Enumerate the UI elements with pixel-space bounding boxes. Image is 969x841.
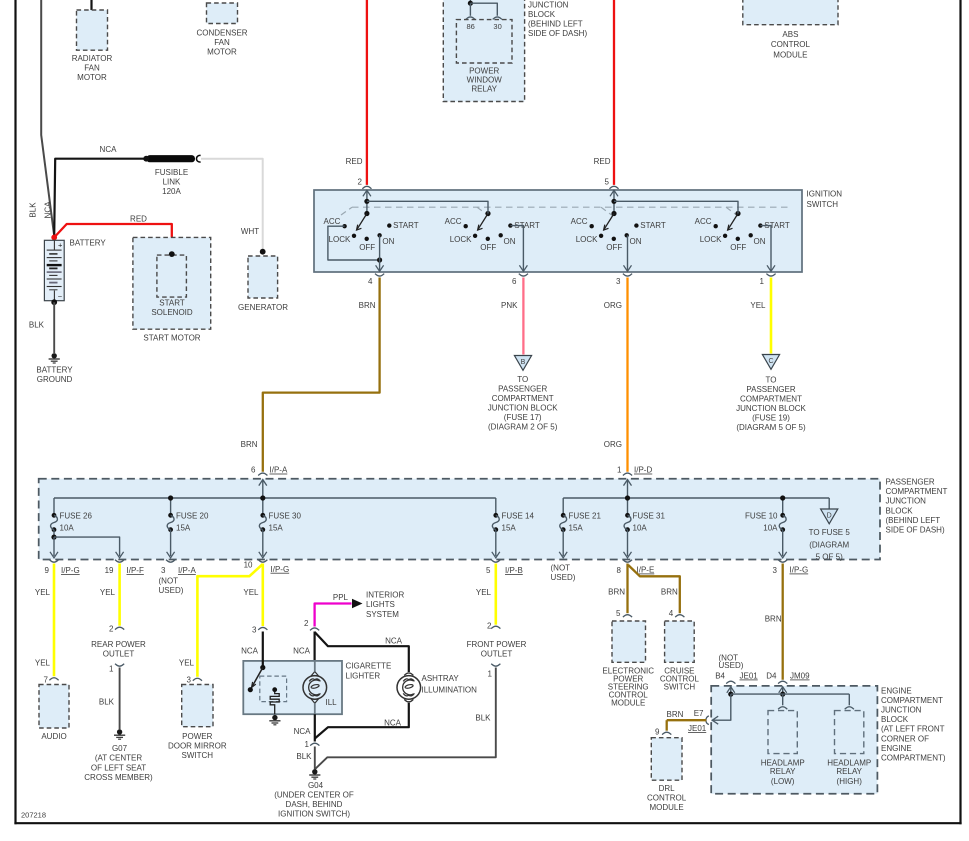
svg-text:START MOTOR: START MOTOR [143, 333, 200, 342]
svg-text:JE01: JE01 [688, 724, 707, 733]
svg-text:BATTERY: BATTERY [36, 365, 73, 374]
svg-text:(DIAGRAM 2 OF 5): (DIAGRAM 2 OF 5) [488, 422, 558, 431]
svg-text:JUNCTION BLOCK: JUNCTION BLOCK [488, 403, 558, 412]
svg-text:NCA: NCA [241, 647, 259, 656]
svg-text:3: 3 [252, 626, 257, 635]
svg-text:FRONT POWER: FRONT POWER [467, 640, 527, 649]
svg-text:FUSE 20: FUSE 20 [176, 512, 209, 521]
svg-text:1: 1 [305, 740, 310, 749]
svg-text:(LOW): (LOW) [771, 777, 795, 786]
svg-text:JUNCTION: JUNCTION [886, 497, 927, 506]
svg-text:(NOT: (NOT [159, 577, 179, 586]
svg-text:15A: 15A [176, 524, 191, 533]
svg-text:RELAY: RELAY [471, 85, 497, 94]
svg-text:DRL: DRL [659, 784, 676, 793]
svg-text:2: 2 [109, 625, 114, 634]
svg-text:6: 6 [251, 466, 256, 475]
svg-text:10A: 10A [763, 524, 778, 533]
svg-text:LIGHTER: LIGHTER [346, 671, 381, 680]
svg-text:FUSE 14: FUSE 14 [502, 512, 535, 521]
svg-text:BRN: BRN [661, 588, 678, 597]
svg-text:D: D [827, 512, 832, 519]
svg-text:I/P-A: I/P-A [270, 466, 288, 475]
svg-text:1: 1 [760, 277, 765, 286]
svg-text:BLK: BLK [475, 713, 491, 722]
svg-text:RED: RED [594, 157, 611, 166]
svg-text:GENERATOR: GENERATOR [238, 303, 288, 312]
svg-text:10: 10 [244, 561, 253, 570]
svg-text:(DIAGRAM: (DIAGRAM [809, 541, 849, 550]
svg-text:MODULE: MODULE [649, 803, 683, 812]
svg-text:NCA: NCA [384, 718, 402, 727]
svg-text:NCA: NCA [293, 647, 311, 656]
svg-text:8: 8 [617, 566, 622, 575]
svg-text:REAR POWER: REAR POWER [91, 640, 146, 649]
svg-text:FUSE 30: FUSE 30 [269, 512, 302, 521]
svg-text:START: START [159, 298, 185, 307]
svg-text:JM09: JM09 [790, 672, 810, 681]
svg-text:B4: B4 [715, 672, 725, 681]
svg-text:ACC: ACC [695, 217, 712, 226]
svg-text:FAN: FAN [214, 38, 230, 47]
svg-text:RADIATOR: RADIATOR [72, 54, 113, 63]
svg-text:SIDE OF DASH): SIDE OF DASH) [886, 526, 945, 535]
svg-text:10A: 10A [633, 524, 648, 533]
svg-text:TO: TO [517, 375, 528, 384]
svg-text:ENGINE: ENGINE [881, 744, 912, 753]
svg-text:FUSE 21: FUSE 21 [569, 512, 602, 521]
svg-text:6: 6 [512, 277, 517, 286]
svg-text:19: 19 [105, 566, 114, 575]
svg-text:INTERIOR: INTERIOR [366, 591, 404, 600]
svg-text:JE01: JE01 [740, 672, 759, 681]
svg-text:TO FUSE 5: TO FUSE 5 [809, 528, 851, 537]
svg-text:COMPARTMENT: COMPARTMENT [740, 395, 802, 404]
svg-text:LOCK: LOCK [329, 235, 351, 244]
svg-text:BLOCK: BLOCK [528, 10, 556, 19]
svg-text:B: B [521, 359, 526, 366]
svg-text:I/P-G: I/P-G [790, 566, 809, 575]
svg-text:9: 9 [655, 728, 660, 737]
svg-text:BLK: BLK [296, 752, 312, 761]
svg-text:FAN: FAN [84, 64, 100, 73]
svg-text:30: 30 [493, 22, 501, 31]
svg-text:PASSENGER: PASSENGER [746, 385, 795, 394]
svg-text:POWER: POWER [182, 732, 212, 741]
svg-text:−: − [58, 292, 63, 301]
svg-text:G04: G04 [308, 781, 324, 790]
svg-text:NCA: NCA [44, 201, 53, 219]
svg-text:3: 3 [187, 676, 192, 685]
svg-text:PASSENGER: PASSENGER [886, 478, 935, 487]
svg-text:SWITCH: SWITCH [807, 200, 839, 209]
svg-text:ILL: ILL [326, 698, 338, 707]
svg-text:GROUND: GROUND [37, 375, 73, 384]
svg-text:LINK: LINK [163, 178, 181, 187]
svg-text:BRN: BRN [359, 301, 376, 310]
svg-text:POWER: POWER [469, 67, 499, 76]
svg-text:ILLUMINATION: ILLUMINATION [422, 685, 478, 694]
svg-text:2: 2 [487, 622, 492, 631]
svg-text:COMPARTMENT: COMPARTMENT [492, 394, 554, 403]
svg-text:BLK: BLK [29, 321, 45, 330]
svg-text:BATTERY: BATTERY [70, 239, 107, 248]
svg-text:BRN: BRN [765, 614, 782, 623]
svg-text:BLK: BLK [99, 698, 115, 707]
svg-text:SOLENOID: SOLENOID [151, 308, 193, 317]
svg-text:YEL: YEL [100, 588, 116, 597]
svg-text:WHT: WHT [241, 227, 259, 236]
svg-text:COMPARTMENT: COMPARTMENT [881, 696, 943, 705]
svg-text:OF LEFT SEAT: OF LEFT SEAT [91, 763, 146, 772]
svg-text:USED): USED) [719, 661, 744, 670]
svg-text:(HIGH): (HIGH) [837, 777, 863, 786]
svg-text:START: START [393, 221, 419, 230]
svg-text:LOCK: LOCK [700, 235, 722, 244]
svg-text:I/P-G: I/P-G [61, 566, 80, 575]
svg-text:PNK: PNK [501, 301, 518, 310]
svg-text:SIDE OF DASH): SIDE OF DASH) [528, 29, 587, 38]
svg-text:DOOR MIRROR: DOOR MIRROR [168, 741, 227, 750]
svg-text:I/P-B: I/P-B [505, 566, 523, 575]
svg-text:15A: 15A [269, 524, 284, 533]
svg-text:COMPARTMENT): COMPARTMENT) [881, 754, 946, 763]
svg-text:AUDIO: AUDIO [41, 732, 66, 741]
svg-text:CONDENSER: CONDENSER [196, 28, 247, 37]
svg-text:(FUSE 19): (FUSE 19) [752, 414, 790, 423]
svg-text:BLOCK: BLOCK [881, 715, 909, 724]
svg-text:C: C [768, 358, 773, 365]
svg-text:YEL: YEL [476, 588, 492, 597]
svg-text:YEL: YEL [243, 588, 259, 597]
svg-text:(UNDER CENTER OF: (UNDER CENTER OF [274, 790, 354, 799]
svg-text:ON: ON [382, 237, 394, 246]
svg-text:5: 5 [616, 609, 621, 618]
svg-text:CIGARETTE: CIGARETTE [346, 661, 392, 670]
svg-text:(NOT: (NOT [551, 564, 571, 573]
svg-text:CONTROL: CONTROL [771, 40, 811, 49]
svg-text:YEL: YEL [179, 659, 195, 668]
svg-text:YEL: YEL [750, 301, 766, 310]
svg-text:SWITCH: SWITCH [182, 751, 214, 760]
svg-text:MOTOR: MOTOR [77, 73, 107, 82]
svg-text:RED: RED [130, 215, 147, 224]
svg-text:CROSS MEMBER): CROSS MEMBER) [84, 773, 153, 782]
svg-text:OFF: OFF [606, 243, 622, 252]
svg-text:D4: D4 [766, 672, 777, 681]
svg-text:207218: 207218 [21, 811, 46, 820]
svg-text:OFF: OFF [730, 243, 746, 252]
svg-text:9: 9 [45, 566, 50, 575]
svg-text:ORG: ORG [604, 440, 622, 449]
svg-text:I/P-G: I/P-G [271, 565, 290, 574]
svg-text:I/P-E: I/P-E [637, 566, 655, 575]
svg-text:USED): USED) [551, 573, 576, 582]
svg-text:NCA: NCA [294, 727, 312, 736]
svg-text:HEADLAMP: HEADLAMP [761, 758, 805, 767]
svg-text:RELAY: RELAY [770, 767, 796, 776]
svg-text:ENGINE: ENGINE [881, 686, 912, 695]
svg-text:OFF: OFF [359, 243, 375, 252]
svg-text:OFF: OFF [480, 243, 496, 252]
svg-text:MOTOR: MOTOR [207, 47, 237, 56]
svg-text:3: 3 [161, 566, 166, 575]
svg-text:ASHTRAY: ASHTRAY [422, 674, 460, 683]
svg-text:MODULE: MODULE [611, 699, 645, 708]
svg-text:4: 4 [669, 609, 674, 618]
svg-text:START: START [640, 221, 666, 230]
svg-text:NCA: NCA [385, 636, 403, 645]
svg-text:I/P-D: I/P-D [634, 466, 652, 475]
svg-text:BRN: BRN [667, 710, 684, 719]
svg-text:OUTLET: OUTLET [103, 650, 135, 659]
svg-text:E7: E7 [694, 709, 704, 718]
svg-text:CORNER OF: CORNER OF [881, 734, 929, 743]
svg-text:COMPARTMENT: COMPARTMENT [886, 487, 948, 496]
svg-text:BRN: BRN [241, 440, 258, 449]
svg-text:4: 4 [368, 277, 373, 286]
svg-text:LOCK: LOCK [450, 235, 472, 244]
svg-text:FUSE 31: FUSE 31 [633, 512, 666, 521]
svg-text:5: 5 [605, 178, 610, 187]
svg-text:IGNITION SWITCH): IGNITION SWITCH) [278, 810, 350, 819]
svg-text:ON: ON [754, 237, 766, 246]
svg-text:1: 1 [488, 670, 493, 679]
svg-text:(AT LEFT FRONT: (AT LEFT FRONT [881, 725, 945, 734]
svg-text:BLOCK: BLOCK [886, 506, 914, 515]
svg-text:MODULE: MODULE [773, 50, 807, 59]
svg-text:10A: 10A [60, 524, 75, 533]
svg-text:FUSE 26: FUSE 26 [60, 512, 93, 521]
svg-text:I/P-F: I/P-F [127, 566, 144, 575]
svg-text:(FUSE 17): (FUSE 17) [504, 413, 542, 422]
svg-text:OUTLET: OUTLET [481, 650, 513, 659]
svg-text:BLK: BLK [29, 202, 38, 218]
svg-text:IGNITION: IGNITION [807, 190, 843, 199]
svg-text:(BEHIND LEFT: (BEHIND LEFT [886, 516, 941, 525]
svg-text:5 OF 5): 5 OF 5) [816, 553, 843, 562]
svg-text:+: + [58, 241, 63, 250]
svg-text:YEL: YEL [35, 658, 51, 667]
svg-text:LOCK: LOCK [576, 235, 598, 244]
svg-text:15A: 15A [569, 524, 584, 533]
svg-text:PPL: PPL [333, 593, 349, 602]
svg-text:(BEHIND LEFT: (BEHIND LEFT [528, 19, 583, 28]
svg-text:7: 7 [44, 676, 49, 685]
svg-text:2: 2 [358, 178, 363, 187]
svg-text:86: 86 [467, 22, 475, 31]
svg-text:FUSIBLE: FUSIBLE [155, 168, 188, 177]
svg-text:YEL: YEL [35, 588, 51, 597]
svg-text:I/P-A: I/P-A [178, 566, 196, 575]
svg-text:G07: G07 [112, 744, 128, 753]
svg-text:120A: 120A [162, 187, 181, 196]
svg-text:1: 1 [109, 665, 114, 674]
svg-text:USED): USED) [159, 586, 184, 595]
svg-text:SYSTEM: SYSTEM [366, 610, 399, 619]
svg-text:WINDOW: WINDOW [467, 76, 503, 85]
svg-text:5: 5 [486, 566, 491, 575]
svg-text:ACC: ACC [324, 217, 341, 226]
svg-text:3: 3 [616, 277, 621, 286]
svg-text:LIGHTS: LIGHTS [366, 600, 395, 609]
svg-text:1: 1 [617, 466, 622, 475]
svg-text:2: 2 [304, 619, 309, 628]
svg-text:15A: 15A [502, 524, 517, 533]
svg-text:HEADLAMP: HEADLAMP [827, 758, 871, 767]
svg-text:ACC: ACC [445, 217, 462, 226]
svg-text:DASH, BEHIND: DASH, BEHIND [286, 800, 343, 809]
svg-text:JUNCTION BLOCK: JUNCTION BLOCK [736, 404, 806, 413]
svg-text:(AT CENTER: (AT CENTER [95, 754, 142, 763]
svg-text:ACC: ACC [571, 217, 588, 226]
svg-text:ORG: ORG [604, 301, 622, 310]
svg-text:BRN: BRN [608, 588, 625, 597]
svg-text:CONTROL: CONTROL [647, 793, 687, 802]
svg-text:JUNCTION: JUNCTION [881, 706, 922, 715]
svg-text:SWITCH: SWITCH [664, 683, 696, 692]
svg-text:ON: ON [630, 237, 642, 246]
svg-text:TO: TO [766, 376, 777, 385]
svg-text:(DIAGRAM 5 OF 5): (DIAGRAM 5 OF 5) [736, 423, 806, 432]
svg-text:JUNCTION: JUNCTION [528, 0, 569, 9]
svg-text:RELAY: RELAY [836, 767, 862, 776]
svg-text:FUSE 10: FUSE 10 [745, 512, 778, 521]
svg-text:RED: RED [346, 157, 363, 166]
svg-text:PASSENGER: PASSENGER [498, 384, 547, 393]
svg-text:3: 3 [773, 566, 778, 575]
svg-text:ABS: ABS [782, 30, 798, 39]
svg-text:NCA: NCA [100, 145, 118, 154]
svg-text:ON: ON [504, 237, 516, 246]
